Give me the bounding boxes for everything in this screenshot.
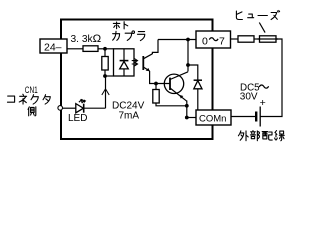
glyph ネ xyxy=(19,94,26,104)
terminal box 24- xyxy=(40,39,67,53)
wire node G to COMn box xyxy=(187,117,196,119)
transistor Q2 xyxy=(164,74,183,93)
module border xyxy=(61,20,213,140)
phototransistor Q1 xyxy=(142,56,144,70)
label ヒューズ xyxy=(236,11,279,20)
emitter wire down xyxy=(186,101,188,118)
node B xyxy=(103,74,107,78)
glyph 部 xyxy=(250,131,259,141)
svg-text:3. 3kΩ: 3. 3kΩ xyxy=(71,33,102,45)
glyph ズ xyxy=(271,11,280,20)
svg-text:7: 7 xyxy=(219,35,225,47)
label コネクタ xyxy=(7,94,50,104)
wire 24- box to resistor xyxy=(67,48,83,50)
node F (emitter/pulldown bus) xyxy=(185,104,189,108)
glyph タ xyxy=(43,95,50,104)
label 側 xyxy=(28,107,36,116)
svg-text:COMn: COMn xyxy=(199,114,226,125)
wire node B down to LED wire (with current arrow) xyxy=(105,76,107,108)
glyph 外 xyxy=(238,131,248,141)
wire node D to diode top xyxy=(188,65,198,80)
glyph 線 xyxy=(275,131,285,141)
glyph ト xyxy=(124,22,128,29)
terminal box 0~7 xyxy=(196,31,231,48)
wire resistor to node A xyxy=(98,48,114,50)
resistor R2 (vertical, parallel to opto LED) xyxy=(104,49,106,57)
terminal box COMn xyxy=(196,110,231,125)
label 外部配線 xyxy=(238,131,284,141)
svg-text:24–: 24– xyxy=(44,42,62,54)
glyph プ xyxy=(125,31,134,40)
diode D2 (surge suppression) xyxy=(194,79,202,81)
resistor R1 3.3kΩ xyxy=(83,46,98,52)
CN1 terminal circle xyxy=(58,106,63,111)
svg-text:7mA: 7mA xyxy=(119,111,140,122)
wire node C down to collector node xyxy=(187,40,189,72)
opto light arrows xyxy=(132,59,138,63)
glyph ホ xyxy=(113,22,120,29)
svg-text:30V: 30V xyxy=(240,91,258,102)
glyph ヒ xyxy=(236,11,242,19)
node C xyxy=(186,38,190,42)
wire node B to photocoupler box bottom xyxy=(105,75,114,77)
node A xyxy=(103,47,107,51)
glyph コ xyxy=(7,96,14,102)
svg-text:LED: LED xyxy=(68,113,87,124)
LED indicator xyxy=(76,104,84,113)
LED light arrows xyxy=(79,99,82,102)
wire load to fuse xyxy=(254,38,260,40)
wire fuse to right corner, down to battery xyxy=(261,39,283,117)
wire terminal to LED xyxy=(63,107,76,109)
battery BT1 xyxy=(259,107,261,127)
svg-text:+: + xyxy=(260,97,266,109)
wire 0~7 to load xyxy=(231,38,239,40)
load xyxy=(238,36,254,42)
glyph ラ xyxy=(137,32,144,41)
node D (collector) xyxy=(186,63,190,67)
current direction arrow DC24V xyxy=(105,89,107,97)
resistor R3 (base pulldown) xyxy=(155,84,157,90)
node E (base junction of Q2 pulldown) xyxy=(154,82,158,86)
wire top to output terminal 0~7 xyxy=(158,39,196,41)
glyph ク xyxy=(31,95,38,104)
glyph ー xyxy=(258,15,267,17)
glyph 配 xyxy=(262,132,272,141)
glyph ュ xyxy=(248,14,254,18)
svg-text:CN1: CN1 xyxy=(25,85,38,96)
wire battery to COMn xyxy=(231,116,255,118)
svg-text:0: 0 xyxy=(202,35,208,47)
photocoupler box U1 xyxy=(114,49,135,76)
label ホトカプラ xyxy=(113,22,145,41)
fuse pointer line xyxy=(259,23,265,33)
wire LED to node corner xyxy=(84,107,106,109)
fuse F1 xyxy=(260,36,277,42)
glyph カ xyxy=(113,31,120,40)
node G (COM junction) xyxy=(185,116,189,120)
opto LED D1 xyxy=(123,49,125,60)
